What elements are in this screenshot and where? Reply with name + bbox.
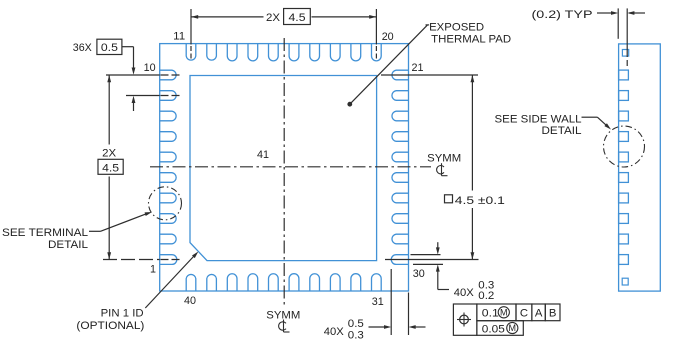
svg-text:2X: 2X: [102, 148, 116, 160]
svg-text:0.05: 0.05: [482, 323, 505, 335]
svg-text:THERMAL PAD: THERMAL PAD: [431, 33, 511, 45]
svg-text:40X: 40X: [324, 326, 344, 338]
svg-text:A: A: [535, 307, 543, 319]
svg-text:36X: 36X: [73, 42, 92, 54]
svg-text:0.5: 0.5: [348, 318, 364, 330]
svg-text:M: M: [509, 323, 517, 333]
svg-text:4.5 ±0.1: 4.5 ±0.1: [455, 195, 505, 207]
svg-text:40: 40: [184, 295, 196, 307]
svg-text:DETAIL: DETAIL: [48, 239, 88, 251]
svg-text:SEE SIDE WALL: SEE SIDE WALL: [495, 113, 582, 125]
svg-text:0.5: 0.5: [101, 42, 118, 54]
svg-text:31: 31: [372, 296, 384, 308]
svg-text:SYMM: SYMM: [427, 152, 461, 164]
svg-text:20: 20: [382, 31, 394, 43]
svg-text:0.2: 0.2: [478, 290, 494, 302]
svg-text:21: 21: [412, 62, 424, 74]
svg-text:PIN 1 ID: PIN 1 ID: [101, 307, 144, 319]
svg-text:10: 10: [144, 62, 156, 74]
svg-text:2X: 2X: [266, 12, 280, 24]
svg-text:4.5: 4.5: [102, 162, 119, 174]
svg-text:4.5: 4.5: [289, 12, 306, 24]
svg-text:(OPTIONAL): (OPTIONAL): [76, 320, 144, 332]
svg-text:C: C: [520, 307, 528, 319]
svg-text:B: B: [549, 307, 557, 319]
svg-text:41: 41: [257, 149, 269, 161]
svg-text:11: 11: [173, 31, 185, 43]
svg-text:30: 30: [413, 268, 425, 280]
svg-text:(0.2) TYP: (0.2) TYP: [532, 9, 593, 21]
svg-text:0.1: 0.1: [482, 307, 499, 319]
svg-text:DETAIL: DETAIL: [542, 125, 582, 137]
svg-text:40X: 40X: [454, 287, 474, 299]
svg-text:0.3: 0.3: [348, 330, 364, 342]
svg-text:1: 1: [150, 264, 156, 276]
svg-text:SEE TERMINAL: SEE TERMINAL: [2, 227, 88, 239]
svg-text:EXPOSED: EXPOSED: [429, 22, 484, 34]
svg-text:M: M: [500, 308, 508, 318]
